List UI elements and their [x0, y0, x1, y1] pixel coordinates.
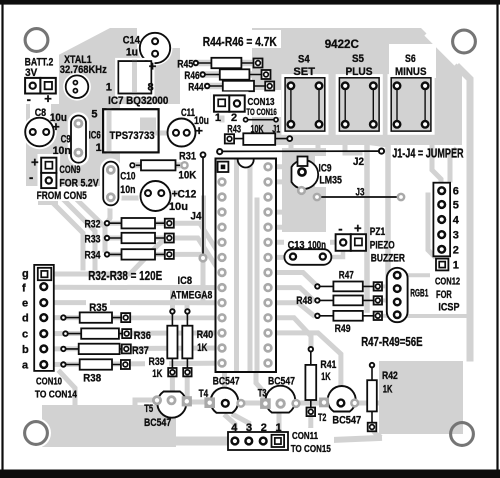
svg-text:b: b [22, 344, 29, 356]
svg-text:10K: 10K [251, 124, 264, 136]
svg-text:TPS73733: TPS73733 [110, 130, 155, 142]
svg-text:1: 1 [96, 142, 102, 154]
svg-text:LM35: LM35 [319, 175, 342, 187]
svg-text:C11: C11 [181, 107, 195, 119]
svg-text:10K: 10K [178, 170, 196, 182]
svg-text:FOR 5.2V: FOR 5.2V [59, 177, 99, 189]
svg-text:R32-R38 = 120E: R32-R38 = 120E [88, 268, 162, 283]
svg-text:FOR: FOR [436, 289, 452, 301]
svg-text:J2: J2 [353, 156, 364, 168]
svg-text:R44-R46 = 4.7K: R44-R46 = 4.7K [203, 34, 278, 49]
svg-text:2: 2 [231, 112, 237, 124]
svg-text:1K: 1K [383, 383, 393, 395]
svg-text:-: - [29, 169, 33, 184]
svg-text:R33: R33 [85, 233, 101, 245]
svg-text:R37: R37 [132, 345, 149, 357]
svg-text:100n: 100n [308, 240, 326, 252]
svg-text:FROM CON5: FROM CON5 [37, 190, 87, 202]
svg-text:3: 3 [246, 422, 252, 434]
svg-text:10n: 10n [53, 145, 71, 157]
svg-text:+C12: +C12 [172, 189, 197, 201]
svg-text:2: 2 [453, 244, 459, 256]
svg-text:+: + [31, 155, 39, 170]
svg-text:R39: R39 [149, 356, 165, 368]
svg-text:S5: S5 [352, 53, 364, 65]
svg-text:J4: J4 [191, 211, 203, 223]
svg-text:+: + [149, 59, 157, 74]
svg-text:R46: R46 [184, 70, 199, 82]
svg-text:S6: S6 [405, 53, 416, 65]
svg-text:-: - [338, 221, 342, 236]
svg-text:4: 4 [453, 215, 460, 227]
svg-text:T2: T2 [318, 412, 326, 424]
svg-text:6: 6 [453, 186, 459, 198]
svg-text:R40: R40 [197, 329, 214, 341]
svg-text:ATMEGA8: ATMEGA8 [171, 289, 213, 301]
svg-text:R45: R45 [177, 59, 193, 71]
svg-text:J1: J1 [272, 124, 280, 136]
svg-text:SET: SET [293, 66, 315, 78]
svg-text:J3: J3 [356, 187, 365, 199]
svg-text:10n: 10n [120, 184, 135, 196]
svg-text:R34: R34 [85, 249, 102, 261]
svg-text:R44: R44 [188, 81, 204, 93]
svg-text:c: c [22, 329, 28, 341]
svg-text:e: e [22, 298, 28, 310]
svg-text:C8: C8 [35, 107, 46, 119]
svg-text:R49: R49 [335, 323, 351, 335]
svg-text:+: + [354, 221, 362, 236]
svg-text:9422C: 9422C [325, 37, 360, 51]
svg-text:C14: C14 [123, 34, 141, 46]
svg-text:R35: R35 [89, 302, 107, 314]
svg-text:f: f [22, 282, 26, 294]
svg-text:a: a [22, 360, 29, 372]
svg-text:1K: 1K [321, 371, 331, 383]
svg-text:CON9: CON9 [59, 164, 80, 176]
svg-text:MINUS: MINUS [395, 66, 427, 78]
svg-text:5: 5 [453, 200, 459, 212]
svg-text:R32: R32 [85, 219, 101, 231]
svg-text:+: + [52, 119, 60, 134]
svg-text:3: 3 [453, 230, 459, 242]
svg-text:32.768KHz: 32.768KHz [60, 64, 107, 76]
svg-text:1K: 1K [152, 368, 162, 380]
svg-text:1: 1 [276, 422, 282, 434]
svg-text:C10: C10 [120, 170, 135, 182]
svg-text:1: 1 [106, 81, 112, 93]
svg-text:d: d [22, 313, 29, 325]
svg-text:CON12: CON12 [435, 277, 460, 288]
svg-text:BC547: BC547 [144, 417, 171, 429]
svg-text:5: 5 [91, 109, 97, 121]
svg-text:TO CON15: TO CON15 [291, 444, 331, 455]
svg-text:R47-R49=56E: R47-R49=56E [361, 334, 423, 349]
svg-text:1: 1 [215, 112, 221, 124]
svg-text:10u: 10u [169, 201, 188, 213]
svg-text:T3: T3 [258, 388, 267, 400]
svg-text:T5: T5 [144, 403, 153, 415]
svg-text:PZ1: PZ1 [370, 226, 385, 238]
svg-text:BC547: BC547 [213, 376, 240, 388]
svg-text:2: 2 [261, 422, 267, 434]
svg-text:-: - [27, 91, 31, 106]
svg-text:TO CON16: TO CON16 [246, 107, 276, 117]
svg-text:IC9: IC9 [319, 163, 332, 175]
svg-text:TO CON14: TO CON14 [35, 390, 77, 401]
svg-text:IC6: IC6 [89, 130, 101, 142]
svg-text:RGB1: RGB1 [410, 288, 428, 300]
svg-text:R31: R31 [179, 151, 196, 163]
svg-text:8: 8 [148, 81, 154, 93]
svg-text:R36: R36 [134, 330, 151, 342]
svg-text:PIEZO: PIEZO [370, 240, 395, 252]
svg-text:R43: R43 [227, 124, 241, 136]
svg-text:BC547: BC547 [268, 376, 295, 388]
svg-text:J1-J4 = JUMPER: J1-J4 = JUMPER [392, 146, 464, 161]
svg-text:3V: 3V [25, 67, 38, 79]
svg-text:+: + [195, 123, 203, 138]
svg-text:R47: R47 [339, 269, 354, 281]
svg-text:C13: C13 [288, 240, 305, 252]
svg-text:CON11: CON11 [292, 431, 318, 442]
svg-text:C9: C9 [61, 134, 71, 146]
svg-text:R48: R48 [296, 295, 312, 307]
svg-text:R38: R38 [83, 373, 101, 385]
svg-text:1: 1 [453, 260, 459, 272]
svg-text:T4: T4 [199, 388, 209, 400]
svg-text:R41: R41 [320, 359, 336, 371]
svg-text:ICSP: ICSP [438, 302, 459, 314]
svg-text:IC8: IC8 [178, 275, 193, 287]
svg-text:1K: 1K [197, 342, 207, 354]
svg-text:R42: R42 [382, 370, 398, 382]
svg-text:BC547: BC547 [332, 414, 361, 426]
svg-text:PLUS: PLUS [346, 66, 373, 78]
svg-text:BUZZER: BUZZER [371, 252, 405, 264]
svg-text:1u: 1u [126, 46, 138, 58]
svg-text:IC7 BQ32000: IC7 BQ32000 [108, 95, 168, 107]
svg-text:CON10: CON10 [36, 377, 62, 388]
svg-text:S4: S4 [298, 53, 310, 65]
svg-text:g: g [22, 268, 29, 280]
svg-text:4: 4 [231, 422, 238, 434]
svg-text:+: + [44, 91, 52, 106]
